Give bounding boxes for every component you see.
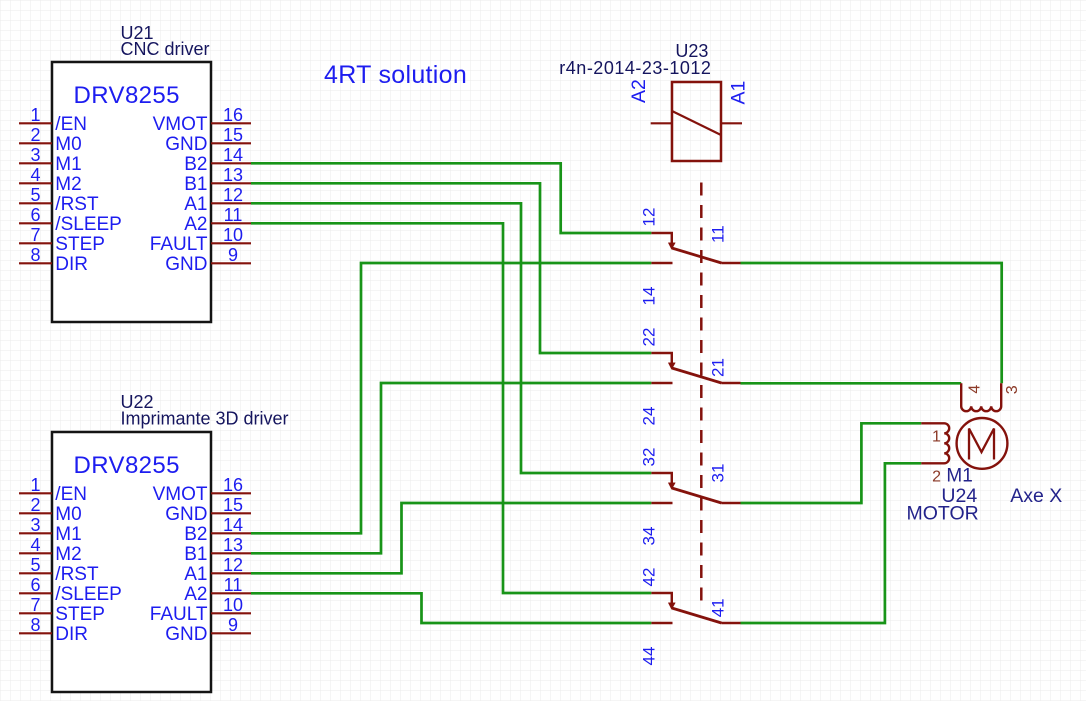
wire contact 21 to motor pin 4 [741, 382, 962, 385]
pin 5 /RST of U22 [19, 555, 99, 585]
pin 8 DIR of U22 [19, 615, 88, 645]
svg-text:DIR: DIR [55, 254, 88, 275]
svg-text:42: 42 [640, 568, 659, 587]
relay contact switch 42/41/44 [651, 593, 740, 623]
svg-text:A1: A1 [184, 564, 207, 585]
svg-text:34: 34 [640, 527, 659, 546]
svg-text:A2: A2 [628, 79, 650, 103]
svg-text:A2: A2 [184, 584, 207, 605]
svg-text:B1: B1 [184, 544, 207, 565]
svg-text:DRV8255: DRV8255 [74, 82, 180, 109]
wire contact 31 to motor pin 1 [741, 423, 922, 503]
svg-text:/EN: /EN [55, 484, 87, 505]
motor M circle symbol [957, 418, 1008, 469]
pin 10 FAULT of U21 [150, 225, 251, 255]
svg-text:31: 31 [708, 464, 727, 483]
pin 12 A1 of U22 [184, 555, 251, 585]
svg-text:/RST: /RST [55, 564, 99, 585]
svg-text:4: 4 [30, 165, 40, 185]
svg-text:13: 13 [223, 165, 243, 185]
svg-text:MOTOR: MOTOR [907, 503, 979, 525]
svg-text:2: 2 [30, 495, 40, 515]
svg-text:4RT solution: 4RT solution [324, 61, 467, 89]
svg-text:22: 22 [640, 328, 659, 347]
svg-text:/RST: /RST [55, 194, 99, 215]
svg-text:3: 3 [1004, 385, 1021, 394]
svg-text:12: 12 [640, 208, 659, 227]
svg-text:3: 3 [30, 515, 40, 535]
svg-text:14: 14 [640, 287, 659, 306]
svg-text:M1: M1 [55, 154, 81, 175]
svg-text:32: 32 [640, 448, 659, 467]
svg-text:41: 41 [708, 598, 727, 617]
pin 4 M2 of U22 [19, 535, 82, 565]
svg-text:/SLEEP: /SLEEP [55, 584, 122, 605]
pin 11 A2 of U22 [184, 575, 251, 605]
pin 9 GND of U22 [165, 615, 251, 645]
pin 12 A1 of U21 [184, 185, 251, 215]
svg-text:11: 11 [224, 205, 243, 225]
svg-text:2: 2 [30, 125, 40, 145]
IC U21 DRV8255 body [52, 23, 211, 322]
svg-text:B1: B1 [184, 174, 207, 195]
IC U22 DRV8255 body [52, 392, 289, 692]
wire contact 41 to motor pin 2 [741, 463, 922, 623]
motor U24 winding A (pins 1-2) [921, 423, 949, 463]
svg-text:/EN: /EN [55, 114, 87, 135]
pin 16 VMOT of U22 [153, 475, 251, 505]
svg-text:14: 14 [223, 145, 243, 165]
svg-text:4: 4 [30, 535, 40, 555]
svg-text:3: 3 [30, 145, 40, 165]
svg-text:7: 7 [30, 595, 40, 615]
svg-text:GND: GND [165, 624, 207, 645]
svg-text:24: 24 [640, 407, 659, 426]
svg-text:GND: GND [165, 254, 207, 275]
svg-text:STEP: STEP [55, 234, 105, 255]
svg-text:11: 11 [708, 225, 727, 243]
svg-text:4: 4 [966, 385, 983, 394]
pin 1 /EN of U21 [19, 105, 87, 135]
svg-text:16: 16 [223, 105, 243, 125]
pin 5 /RST of U21 [19, 185, 99, 215]
svg-text:FAULT: FAULT [150, 604, 208, 625]
relay pin A1 [721, 81, 750, 124]
wire U22 B1 to contact 24 [251, 383, 651, 553]
pin 4 M2 of U21 [19, 165, 82, 195]
svg-text:A1: A1 [728, 81, 750, 105]
motor U24 winding B (pins 4-3) [961, 383, 1001, 411]
pin 14 B2 of U21 [184, 145, 251, 175]
pin 16 VMOT of U21 [153, 105, 251, 135]
pin 13 B1 of U22 [184, 535, 251, 565]
svg-text:B2: B2 [184, 154, 207, 175]
svg-text:VMOT: VMOT [153, 114, 208, 135]
svg-text:DRV8255: DRV8255 [74, 452, 180, 479]
pin 10 FAULT of U22 [150, 595, 251, 625]
svg-text:A1: A1 [184, 194, 207, 215]
svg-text:16: 16 [223, 475, 243, 495]
svg-text:1: 1 [932, 429, 941, 446]
pin 8 DIR of U21 [19, 245, 88, 275]
svg-text:GND: GND [165, 134, 207, 155]
svg-text:A2: A2 [184, 214, 207, 235]
pin 15 GND of U22 [165, 495, 251, 525]
svg-text:11: 11 [224, 575, 243, 595]
pin 14 B2 of U22 [184, 515, 251, 545]
svg-text:CNC driver: CNC driver [121, 39, 210, 59]
svg-text:44: 44 [640, 647, 659, 666]
svg-text:GND: GND [165, 504, 207, 525]
svg-text:Imprimante 3D driver: Imprimante 3D driver [121, 409, 289, 429]
svg-text:9: 9 [228, 245, 238, 265]
svg-text:VMOT: VMOT [153, 484, 208, 505]
wire U21 A1 to contact 32 [251, 203, 651, 473]
relay coil U23 r4n-2014-23-1012 [559, 41, 721, 161]
wire U22 B2 to contact 14 [251, 263, 651, 533]
svg-text:8: 8 [30, 615, 40, 635]
svg-text:15: 15 [223, 125, 243, 145]
wire U22 A2 to contact 44 [251, 593, 651, 623]
wire U21 B2 to contact 12 [251, 163, 651, 233]
relay contact switch 12/11/14 [651, 233, 740, 263]
pin 2 M0 of U22 [19, 495, 82, 525]
svg-text:7: 7 [30, 225, 40, 245]
svg-text:1: 1 [30, 475, 40, 495]
wire contact 11 to motor pin 3 [741, 263, 1002, 383]
wire U21 A2 to contact 42 [251, 223, 651, 593]
svg-text:5: 5 [30, 185, 40, 205]
svg-text:M1: M1 [55, 524, 81, 545]
pin 13 B1 of U21 [184, 165, 251, 195]
svg-text:13: 13 [223, 535, 243, 555]
svg-text:M2: M2 [55, 544, 81, 565]
pin 15 GND of U21 [165, 125, 251, 155]
pin 2 M0 of U21 [19, 125, 82, 155]
pin 6 /SLEEP of U22 [19, 575, 122, 605]
pin 6 /SLEEP of U21 [19, 205, 122, 235]
svg-text:9: 9 [228, 615, 238, 635]
svg-text:/SLEEP: /SLEEP [55, 214, 122, 235]
svg-text:1: 1 [30, 105, 40, 125]
pin 11 A2 of U21 [184, 205, 251, 235]
pin 1 /EN of U22 [19, 475, 87, 505]
svg-text:FAULT: FAULT [150, 234, 208, 255]
pin 3 M1 of U22 [19, 515, 82, 545]
svg-text:15: 15 [223, 495, 243, 515]
svg-text:M0: M0 [55, 134, 81, 155]
svg-text:r4n-2014-23-1012: r4n-2014-23-1012 [559, 58, 711, 78]
pin 3 M1 of U21 [19, 145, 82, 175]
svg-text:10: 10 [223, 595, 243, 615]
svg-text:STEP: STEP [55, 604, 105, 625]
relay linkage dashed line [700, 183, 703, 604]
relay pin A2 [628, 79, 672, 123]
svg-text:6: 6 [30, 575, 40, 595]
svg-text:DIR: DIR [55, 624, 88, 645]
svg-text:10: 10 [223, 225, 243, 245]
svg-text:M2: M2 [55, 174, 81, 195]
wire U21 B1 to contact 22 [251, 183, 651, 353]
svg-text:5: 5 [30, 555, 40, 575]
svg-text:12: 12 [223, 185, 243, 205]
svg-text:M1: M1 [946, 466, 972, 487]
svg-text:2: 2 [932, 469, 941, 486]
svg-text:B2: B2 [184, 524, 207, 545]
svg-text:12: 12 [223, 555, 243, 575]
svg-text:6: 6 [30, 205, 40, 225]
relay contact switch 22/21/24 [651, 353, 740, 383]
svg-text:21: 21 [708, 358, 727, 377]
pin 7 STEP of U21 [19, 225, 105, 255]
pin 7 STEP of U22 [19, 595, 105, 625]
pin 9 GND of U21 [165, 245, 251, 275]
svg-text:Axe X: Axe X [1010, 485, 1062, 507]
wire U22 A1 to contact 34 [251, 503, 651, 573]
relay contact switch 32/31/34 [651, 473, 740, 503]
svg-text:M0: M0 [55, 504, 81, 525]
svg-text:8: 8 [30, 245, 40, 265]
svg-text:14: 14 [223, 515, 243, 535]
